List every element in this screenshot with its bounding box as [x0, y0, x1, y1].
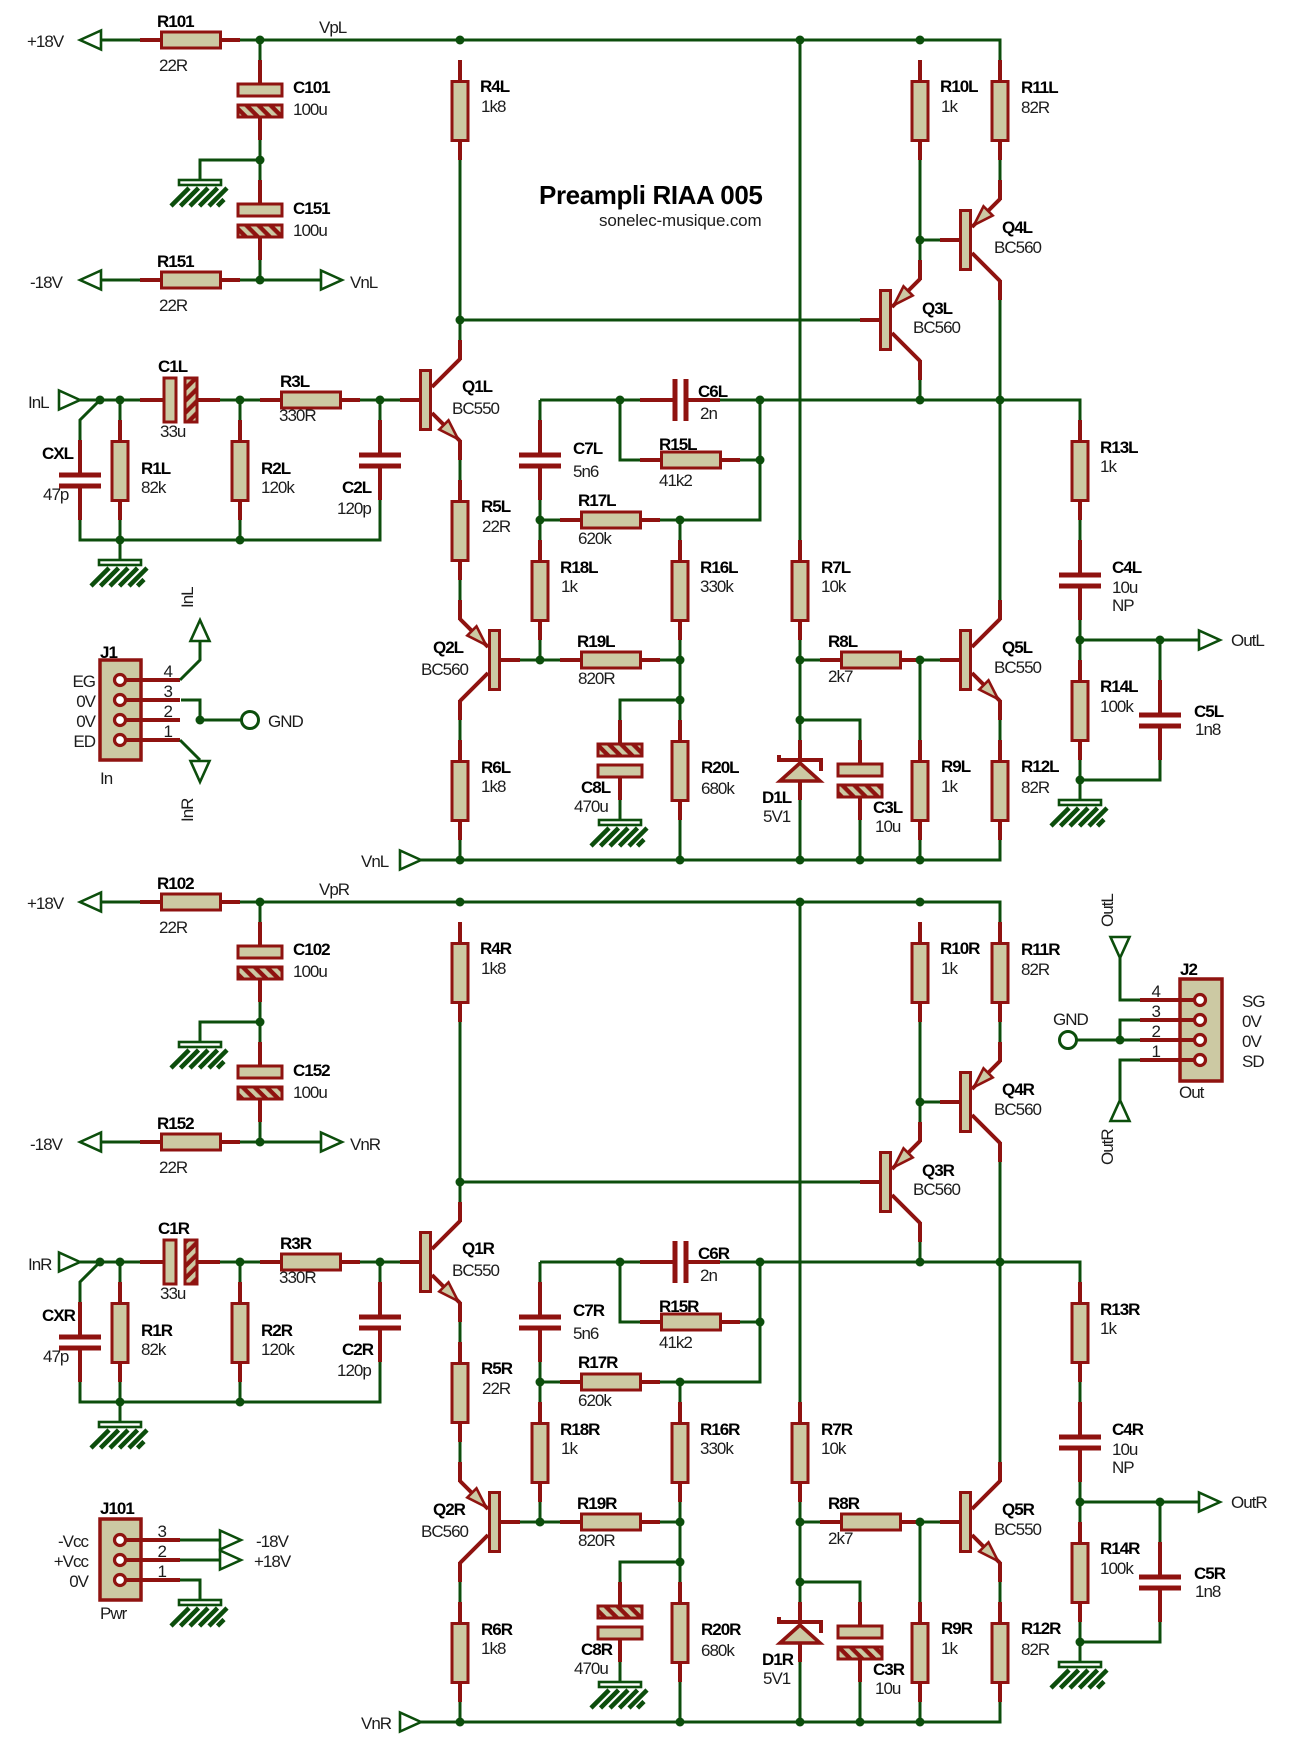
ground [1051, 800, 1107, 826]
svg-text:10k: 10k [821, 577, 847, 596]
wire [360, 1261, 400, 1264]
resistor R18L [532, 540, 598, 640]
wire [919, 660, 922, 740]
wire to ground [619, 1662, 622, 1682]
svg-text:10u: 10u [1112, 578, 1138, 597]
wire [800, 659, 820, 662]
port arrow InL [59, 391, 80, 410]
net OutR label (rotated) [1098, 1129, 1117, 1165]
port arrow +18V [80, 31, 101, 50]
junction [1076, 1638, 1085, 1647]
svg-text:0V: 0V [69, 1572, 89, 1591]
svg-text:GND: GND [268, 712, 304, 731]
wire [539, 1502, 542, 1522]
svg-text:Q1L: Q1L [462, 377, 493, 396]
connector J1 [100, 643, 180, 788]
resistor R16R [672, 1402, 740, 1502]
svg-text:C1L: C1L [158, 357, 188, 376]
svg-text:BC560: BC560 [994, 1100, 1042, 1119]
wire [1079, 1482, 1082, 1502]
resistor R15R [640, 1297, 740, 1352]
wire [999, 720, 1002, 740]
resistor R5L [452, 480, 511, 580]
wire [1079, 520, 1082, 540]
svg-text:R20L: R20L [701, 758, 739, 777]
wire [1079, 620, 1082, 640]
svg-text:-Vcc: -Vcc [58, 1532, 90, 1551]
J101 pin1 label 0V [69, 1572, 89, 1591]
wire [459, 840, 462, 860]
wire [539, 1362, 542, 1382]
svg-text:C152: C152 [293, 1061, 330, 1080]
junction [996, 396, 1005, 405]
resistor R12L [992, 740, 1059, 840]
resistor R14R [1072, 1522, 1140, 1622]
J2 pin4 label SG [1242, 992, 1265, 1011]
capacitor C6R [640, 1241, 730, 1285]
svg-text:100u: 100u [293, 221, 327, 240]
resistor R17L [560, 491, 660, 548]
svg-text:+18V: +18V [27, 32, 65, 51]
junction [916, 856, 925, 865]
capacitor C2R [337, 1282, 401, 1380]
wire feedback node [540, 399, 640, 402]
capacitor C4L [1059, 540, 1142, 620]
net -18V label [30, 1135, 64, 1154]
wire [859, 820, 862, 860]
GND bubble J2 [1060, 1032, 1077, 1049]
svg-text:1k: 1k [941, 97, 958, 116]
svg-text:R152: R152 [157, 1114, 194, 1133]
wire J1 pin4 to InL [180, 641, 200, 680]
svg-text:OutR: OutR [1098, 1129, 1117, 1165]
wire [660, 1521, 680, 1524]
svg-text:NP: NP [1112, 596, 1134, 615]
svg-text:R16L: R16L [700, 558, 738, 577]
svg-text:C2R: C2R [342, 1340, 374, 1359]
wire [459, 1582, 462, 1602]
port arrow VnL [400, 851, 421, 870]
svg-text:330R: 330R [279, 406, 316, 425]
J1 pin2 label 0V [76, 712, 96, 731]
svg-text:470u: 470u [574, 1659, 608, 1678]
J101 pin2 label +Vcc [54, 1552, 90, 1571]
svg-text:Q3L: Q3L [922, 299, 953, 318]
J1 pin1 label ED [73, 732, 95, 751]
wire +18V to R101 [101, 39, 140, 42]
wire [759, 400, 762, 460]
resistor R4L [452, 60, 510, 160]
svg-text:C102: C102 [293, 940, 330, 959]
junction [456, 1178, 465, 1187]
wire [220, 399, 260, 402]
svg-text:R19R: R19R [577, 1494, 617, 1513]
svg-text:82R: 82R [1021, 778, 1050, 797]
junction [796, 898, 805, 907]
resistor R11L [992, 60, 1058, 160]
ground J101 [171, 1600, 227, 1626]
svg-text:100u: 100u [293, 100, 327, 119]
svg-text:SD: SD [1242, 1052, 1264, 1071]
svg-text:1n8: 1n8 [1195, 720, 1221, 739]
wire [459, 460, 462, 480]
svg-text:R17R: R17R [578, 1353, 618, 1372]
svg-text:22R: 22R [159, 918, 188, 937]
ground [1051, 1662, 1107, 1688]
svg-text:InR: InR [178, 798, 197, 822]
wire [539, 500, 542, 520]
wire [539, 400, 542, 420]
net VnR wire [240, 1141, 322, 1144]
svg-text:R12L: R12L [1021, 757, 1059, 776]
junction [536, 1378, 545, 1387]
wire [101, 1141, 140, 1144]
svg-text:10u: 10u [875, 817, 901, 836]
resistor R3R [260, 1234, 360, 1287]
net VnL rail wire [421, 840, 1000, 860]
wire [620, 1262, 640, 1322]
net VpR rail wire [240, 902, 1000, 922]
port arrow -18V [80, 1133, 101, 1152]
wire to CXL [80, 1262, 100, 1302]
port arrow +18V [220, 1551, 241, 1570]
wire [919, 240, 922, 260]
wire [1159, 640, 1162, 680]
wire [239, 1382, 242, 1402]
J1 pin3 label 0V [76, 692, 96, 711]
wire J101 pin1 to ground [180, 1580, 200, 1600]
svg-text:1k: 1k [561, 577, 578, 596]
wire collector Q1 [459, 160, 462, 340]
svg-text:R8L: R8L [828, 632, 858, 651]
wire [259, 40, 262, 60]
svg-text:1k: 1k [561, 1439, 578, 1458]
junction [1076, 776, 1085, 785]
svg-text:C5R: C5R [1194, 1564, 1226, 1583]
svg-text:680k: 680k [701, 1641, 735, 1660]
svg-text:-18V: -18V [30, 1135, 64, 1154]
wire J101 pin2 [180, 1559, 221, 1562]
wire to Q3 base [460, 319, 860, 322]
resistor R11R [992, 922, 1060, 1022]
junction [536, 516, 545, 525]
wire J1 pin1 to InR [180, 740, 200, 760]
junction [116, 396, 125, 405]
wire J1 pin3 [181, 700, 200, 720]
wire output node [720, 1262, 1080, 1282]
wire [999, 160, 1002, 180]
resistor R2R [232, 1282, 295, 1382]
wire [101, 279, 140, 282]
junction [456, 898, 465, 907]
svg-text:3: 3 [164, 682, 173, 701]
svg-text:3: 3 [1152, 1002, 1161, 1021]
transistor Q5L [940, 600, 1042, 720]
svg-text:5n6: 5n6 [573, 462, 599, 481]
svg-text:R3L: R3L [280, 372, 310, 391]
junction [796, 656, 805, 665]
svg-text:C1R: C1R [158, 1219, 190, 1238]
J2 pin1 label SD [1242, 1052, 1264, 1071]
svg-text:820R: 820R [578, 1531, 615, 1550]
ground [91, 560, 147, 586]
transistor Q5R [940, 1462, 1042, 1582]
svg-text:1k8: 1k8 [481, 777, 506, 796]
junction [256, 156, 265, 165]
wire [539, 640, 542, 660]
svg-text:In: In [100, 769, 113, 788]
svg-text:41k2: 41k2 [659, 1333, 692, 1352]
wire [680, 1322, 760, 1382]
svg-text:SG: SG [1242, 992, 1265, 1011]
J2 pin3 label 0V [1242, 1012, 1262, 1031]
wire [220, 1261, 260, 1264]
svg-text:0V: 0V [76, 692, 96, 711]
svg-text:C7R: C7R [573, 1301, 605, 1320]
net VnL label [350, 273, 378, 292]
transistor Q3L [860, 260, 961, 380]
junction [536, 656, 545, 665]
svg-text:BC560: BC560 [421, 660, 469, 679]
svg-text:ED: ED [73, 732, 95, 751]
port arrow OutL [1199, 631, 1220, 650]
port arrow OutR [1199, 1493, 1220, 1512]
wire [740, 1321, 760, 1324]
svg-text:120p: 120p [337, 499, 371, 518]
svg-text:R6L: R6L [481, 758, 511, 777]
wire [679, 1682, 682, 1722]
ground [171, 180, 227, 206]
svg-text:1: 1 [164, 722, 173, 741]
wire [799, 1522, 802, 1602]
transistor Q2L [421, 600, 520, 720]
junction [676, 1378, 685, 1387]
wire [919, 380, 922, 400]
svg-text:R4L: R4L [480, 77, 510, 96]
svg-text:R102: R102 [157, 874, 194, 893]
svg-text:2: 2 [158, 1542, 167, 1561]
junction [1116, 1036, 1125, 1045]
wire to ground [200, 160, 260, 180]
net OutR wire [1080, 1501, 1198, 1504]
resistor R20L [672, 720, 739, 820]
svg-text:EG: EG [72, 672, 95, 691]
svg-text:C8R: C8R [581, 1640, 613, 1659]
junction [676, 516, 685, 525]
junction [796, 1518, 805, 1527]
svg-text:VnL: VnL [361, 852, 389, 871]
svg-text:R5L: R5L [481, 497, 511, 516]
port arrow +18V [80, 893, 101, 912]
junction [676, 1518, 685, 1527]
svg-text:R9R: R9R [941, 1619, 973, 1638]
svg-text:Pwr: Pwr [100, 1604, 128, 1623]
wire [1079, 640, 1082, 660]
svg-text:R13L: R13L [1100, 438, 1138, 457]
junction [916, 898, 925, 907]
wire [759, 1262, 762, 1322]
wire to ground [119, 1402, 122, 1422]
wire [919, 1242, 922, 1262]
wire [239, 400, 242, 420]
svg-text:22R: 22R [159, 1158, 188, 1177]
svg-text:R2L: R2L [261, 459, 291, 478]
transistor Q4R [940, 1042, 1042, 1162]
resistor R6L [452, 740, 511, 840]
wire [259, 902, 262, 922]
svg-text:4: 4 [1152, 982, 1161, 1001]
connector J2 [1140, 960, 1222, 1102]
svg-text:120k: 120k [261, 1340, 295, 1359]
svg-text:Q2R: Q2R [433, 1500, 466, 1519]
svg-text:R11R: R11R [1021, 940, 1060, 959]
svg-text:CXL: CXL [42, 444, 74, 463]
GND label J1 [268, 712, 304, 731]
svg-text:33u: 33u [160, 422, 186, 441]
wire [679, 640, 682, 660]
wire [360, 399, 400, 402]
wire J1 pin2 to GND [200, 719, 241, 722]
svg-text:R7L: R7L [821, 558, 851, 577]
net VnR rail wire [421, 1702, 1000, 1722]
junction [796, 1718, 805, 1727]
svg-text:22R: 22R [482, 1379, 511, 1398]
svg-text:10k: 10k [821, 1439, 847, 1458]
junction [856, 856, 865, 865]
junction [456, 316, 465, 325]
J101 pin3 label -Vcc [58, 1532, 90, 1551]
svg-text:100k: 100k [1100, 1559, 1134, 1578]
junction [116, 536, 125, 545]
svg-text:R8R: R8R [828, 1494, 860, 1513]
wire [119, 400, 122, 420]
wire [1080, 1622, 1160, 1642]
svg-text:Q1R: Q1R [462, 1239, 495, 1258]
wire [920, 239, 940, 242]
capacitor C7L [519, 420, 603, 500]
capacitor C8L [574, 720, 642, 816]
wire [740, 459, 760, 462]
wire [1159, 1502, 1162, 1542]
wire collector Q1 [459, 1022, 462, 1202]
wire [920, 659, 940, 662]
svg-text:22R: 22R [482, 517, 511, 536]
svg-text:J2: J2 [1180, 960, 1197, 979]
junction [256, 36, 265, 45]
wire [919, 840, 922, 860]
junction [756, 456, 765, 465]
resistor R9R [912, 1602, 973, 1702]
svg-text:BC560: BC560 [913, 318, 961, 337]
junction [756, 1318, 765, 1327]
svg-text:C6R: C6R [698, 1244, 730, 1263]
wire [660, 1381, 680, 1384]
wire [540, 519, 560, 522]
svg-text:R13R: R13R [1100, 1300, 1140, 1319]
junction [676, 1718, 685, 1727]
junction [196, 716, 205, 725]
junction [676, 656, 685, 665]
resistor R12R [992, 1602, 1061, 1702]
svg-text:OutL: OutL [1231, 631, 1264, 650]
svg-text:Q3R: Q3R [922, 1161, 955, 1180]
subtitle [599, 211, 762, 230]
svg-text:VnR: VnR [361, 1714, 392, 1733]
port arrow VnL [321, 271, 342, 290]
wire [999, 1162, 1002, 1462]
resistor R19R [560, 1494, 660, 1550]
wire to ground [619, 800, 622, 820]
svg-text:R9L: R9L [941, 757, 971, 776]
capacitor C4R [1059, 1402, 1144, 1482]
svg-text:R18L: R18L [560, 558, 598, 577]
wire [799, 660, 802, 740]
junction [796, 1578, 805, 1587]
resistor R9L [912, 740, 971, 840]
wire [259, 260, 262, 280]
junction [256, 898, 265, 907]
capacitor C5R [1139, 1542, 1226, 1622]
svg-text:C3R: C3R [873, 1660, 905, 1679]
net InL wire [80, 399, 140, 402]
net InL label (rotated) [178, 587, 197, 608]
junction [756, 396, 765, 405]
svg-text:1k8: 1k8 [481, 97, 506, 116]
port arrow -18V [80, 271, 101, 290]
net VnL wire [240, 279, 322, 282]
wire +18V to R102 [101, 901, 140, 904]
junction [616, 1258, 625, 1267]
svg-text:3: 3 [158, 1522, 167, 1541]
svg-text:330R: 330R [279, 1268, 316, 1287]
resistor R19L [560, 632, 660, 688]
svg-text:C7L: C7L [573, 439, 603, 458]
resistor R7L [792, 540, 851, 640]
junction [916, 1718, 925, 1727]
svg-text:InL: InL [28, 393, 49, 412]
junction [256, 1138, 265, 1147]
transistor Q4L [940, 180, 1042, 300]
junction [1076, 636, 1085, 645]
net VnR label [350, 1135, 381, 1154]
ground [171, 1042, 227, 1068]
svg-text:Q5L: Q5L [1002, 638, 1033, 657]
resistor R8L [820, 632, 920, 686]
svg-text:R4R: R4R [480, 939, 512, 958]
junction [456, 36, 465, 45]
resistor R5R [452, 1342, 513, 1442]
resistor R4R [452, 922, 512, 1022]
svg-text:82R: 82R [1021, 1640, 1050, 1659]
wire [1079, 1502, 1082, 1522]
svg-text:330k: 330k [700, 577, 734, 596]
wire [259, 140, 262, 180]
svg-text:1k: 1k [1100, 457, 1117, 476]
capacitor C1L [140, 357, 220, 441]
svg-text:47p: 47p [43, 1347, 69, 1366]
wire to C3 [800, 720, 860, 740]
junction [236, 536, 245, 545]
svg-text:82k: 82k [141, 478, 167, 497]
svg-text:4: 4 [164, 662, 173, 681]
resistor R10L [912, 60, 978, 160]
svg-text:R7R: R7R [821, 1420, 853, 1439]
port arrow VnR [400, 1713, 421, 1732]
junction [116, 1258, 125, 1267]
capacitor C7R [519, 1282, 605, 1362]
net InR wire [80, 1261, 140, 1264]
svg-text:1k: 1k [941, 959, 958, 978]
